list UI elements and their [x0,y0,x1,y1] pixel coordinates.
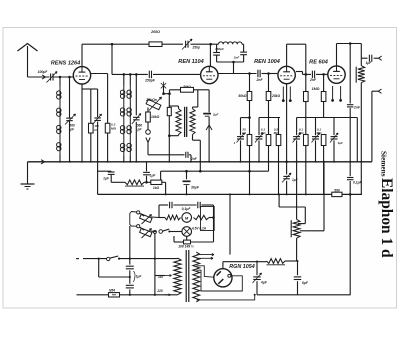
svg-text:1μF: 1μF [136,275,143,279]
svg-text:2nF: 2nF [309,78,317,82]
svg-text:1kΩ: 1kΩ [153,186,160,190]
svg-text:MΩ: MΩ [111,126,117,130]
svg-text:REN 1104: REN 1104 [178,59,204,65]
svg-text:Ω: Ω [93,128,97,132]
svg-text:1μF: 1μF [338,141,343,145]
svg-text:108 149 ½: 108 149 ½ [178,245,194,249]
svg-text:N54: N54 [109,288,115,292]
svg-text:100μF: 100μF [38,70,49,74]
svg-text:RGN 1054: RGN 1054 [229,264,254,270]
svg-text:30μF: 30μF [191,185,200,189]
svg-text:50kΩ: 50kΩ [183,84,191,88]
svg-text:0,1μF: 0,1μF [182,207,192,211]
svg-text:560: 560 [334,188,340,192]
svg-text:2nF: 2nF [353,106,361,110]
svg-text:MΩ: MΩ [261,131,266,135]
svg-text:MΩ: MΩ [274,131,279,135]
svg-text:2nF: 2nF [233,56,240,60]
svg-text:250pF: 250pF [144,79,156,83]
svg-text:REN 1004: REN 1004 [254,59,281,65]
svg-text:25kΩ±: 25kΩ± [145,98,157,102]
svg-text:Siemens: Siemens [380,151,389,177]
svg-text:25kΩ: 25kΩ [271,94,281,98]
svg-text:50kΩ: 50kΩ [238,94,247,98]
svg-text:4,5V 0,1A: 4,5V 0,1A [191,227,207,231]
svg-text:RENS 1264: RENS 1264 [51,61,81,67]
svg-text:250p: 250p [192,46,200,50]
svg-text:4μF: 4μF [260,281,268,285]
svg-text:kΩ: kΩ [242,131,247,135]
svg-text:2nF: 2nF [255,78,263,82]
svg-text:MΩ: MΩ [299,131,304,135]
svg-text:MΩ: MΩ [317,131,322,135]
svg-text:Elaphon 1 d: Elaphon 1 d [378,178,395,258]
svg-text:1MΩ: 1MΩ [312,87,320,91]
svg-text:220: 220 [156,289,163,293]
svg-text:1μF: 1μF [366,61,373,65]
svg-text:8μF: 8μF [302,281,309,285]
svg-text:150pF: 150pF [215,47,224,51]
svg-text:2nF: 2nF [190,157,198,161]
svg-text:10kΩ: 10kΩ [151,115,160,119]
svg-text:200Ω: 200Ω [150,30,160,34]
svg-text:RE 604: RE 604 [309,60,329,66]
svg-text:2μF: 2μF [212,113,218,117]
